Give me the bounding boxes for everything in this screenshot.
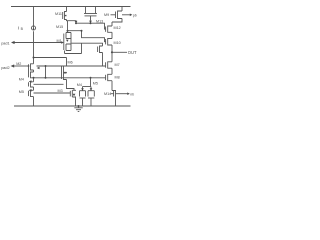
node dot ground: [78, 105, 80, 107]
transistor M14: [111, 91, 128, 107]
arrowhead pad1: [11, 41, 15, 44]
node dot A2: [90, 22, 92, 24]
arrowhead drain M5: [89, 21, 92, 24]
node dot mid3: [33, 77, 35, 79]
transistor M11: [63, 7, 67, 20]
arrowhead M3 source: [73, 94, 76, 97]
transistor pair right: [88, 91, 94, 106]
svg-text:M6: M6: [68, 61, 73, 65]
wire VDD top rail: [11, 6, 131, 8]
output mirror riser: [83, 78, 92, 91]
ground: [74, 106, 82, 112]
wire VSS bottom rail: [14, 105, 131, 107]
svg-text:M13: M13: [96, 20, 103, 24]
svg-text:M5: M5: [93, 82, 98, 86]
svg-text:M3: M3: [58, 89, 63, 93]
svg-text:M14: M14: [104, 92, 111, 96]
svg-text:M8: M8: [115, 75, 120, 79]
svg-text:M1: M1: [57, 39, 62, 43]
node dot tail corner: [33, 57, 35, 59]
node dot B2: [81, 30, 83, 32]
svg-text:pad1: pad1: [1, 41, 9, 45]
arrowhead pair right: [90, 88, 93, 90]
wire pad1 lead: [14, 42, 62, 44]
transistor M2 cluster: [29, 64, 34, 78]
transistor M12: [106, 22, 112, 32]
transistor M6 cluster: [62, 58, 75, 91]
node dot mid1: [45, 77, 47, 79]
node dot B1: [67, 30, 69, 32]
wire current-source drop: [33, 7, 35, 26]
wire second stage gate long: [37, 65, 106, 67]
svg-text:M2: M2: [16, 62, 21, 66]
arrowhead nb: [127, 92, 130, 95]
svg-text:M11: M11: [55, 12, 62, 16]
node dot A1: [75, 22, 77, 24]
arrowhead pair left: [81, 88, 84, 90]
wire pad2 lead: [14, 65, 29, 67]
wire OUT: [112, 51, 127, 53]
transistor mirror lower: [29, 90, 34, 106]
svg-text:nb: nb: [130, 92, 134, 96]
svg-text:M5: M5: [19, 90, 24, 94]
wire tail corner right: [34, 57, 67, 59]
input pair cluster M1: [64, 21, 103, 66]
transistor mirror upper: [29, 78, 34, 91]
node dot OUT: [111, 51, 113, 53]
svg-text:M7: M7: [115, 63, 120, 67]
arrowhead pad2: [11, 64, 15, 67]
svg-text:M4: M4: [77, 83, 82, 87]
current source IB: [31, 26, 35, 30]
arrowhead drain M11: [75, 21, 78, 24]
transistor M3: [70, 90, 76, 106]
wire node A horizontal: [76, 23, 106, 29]
transistor M8: [106, 74, 112, 90]
node dot mid2: [90, 77, 92, 79]
arrowhead M1 source: [66, 40, 69, 42]
arrowhead M2 source: [37, 67, 40, 70]
svg-text:pad2: pad2: [1, 66, 9, 70]
svg-text:M9: M9: [104, 13, 109, 17]
wire mirror gate long: [34, 92, 71, 94]
transistor pair left: [80, 91, 86, 106]
node dot pad2 gate: [28, 65, 30, 67]
svg-text:M4: M4: [19, 78, 24, 82]
svg-text:M15: M15: [56, 25, 63, 29]
svg-text:pb: pb: [133, 13, 137, 17]
svg-text:I: I: [18, 25, 20, 31]
wire node B zigzag: [68, 31, 106, 42]
wire tail vertical: [33, 31, 35, 64]
svg-text:M12: M12: [114, 26, 121, 30]
wire mid links: [34, 66, 106, 84]
arrow current source: [33, 28, 35, 30]
transistor M10: [106, 32, 112, 52]
svg-text:OUT: OUT: [128, 50, 137, 55]
svg-text:B: B: [21, 27, 24, 31]
arrowhead bias pb: [130, 14, 133, 17]
arrowhead mirror upper: [29, 80, 32, 83]
node dot mid0: [45, 65, 47, 67]
arrowhead mirror lower: [29, 89, 32, 92]
transistor M9: [111, 7, 131, 23]
transistor M5 wide: [84, 7, 97, 21]
wire M11 drain to node A: [67, 20, 77, 22]
arrowhead pad1 gate: [61, 41, 64, 44]
transistor M7: [106, 52, 112, 74]
svg-text:M10: M10: [114, 41, 121, 45]
